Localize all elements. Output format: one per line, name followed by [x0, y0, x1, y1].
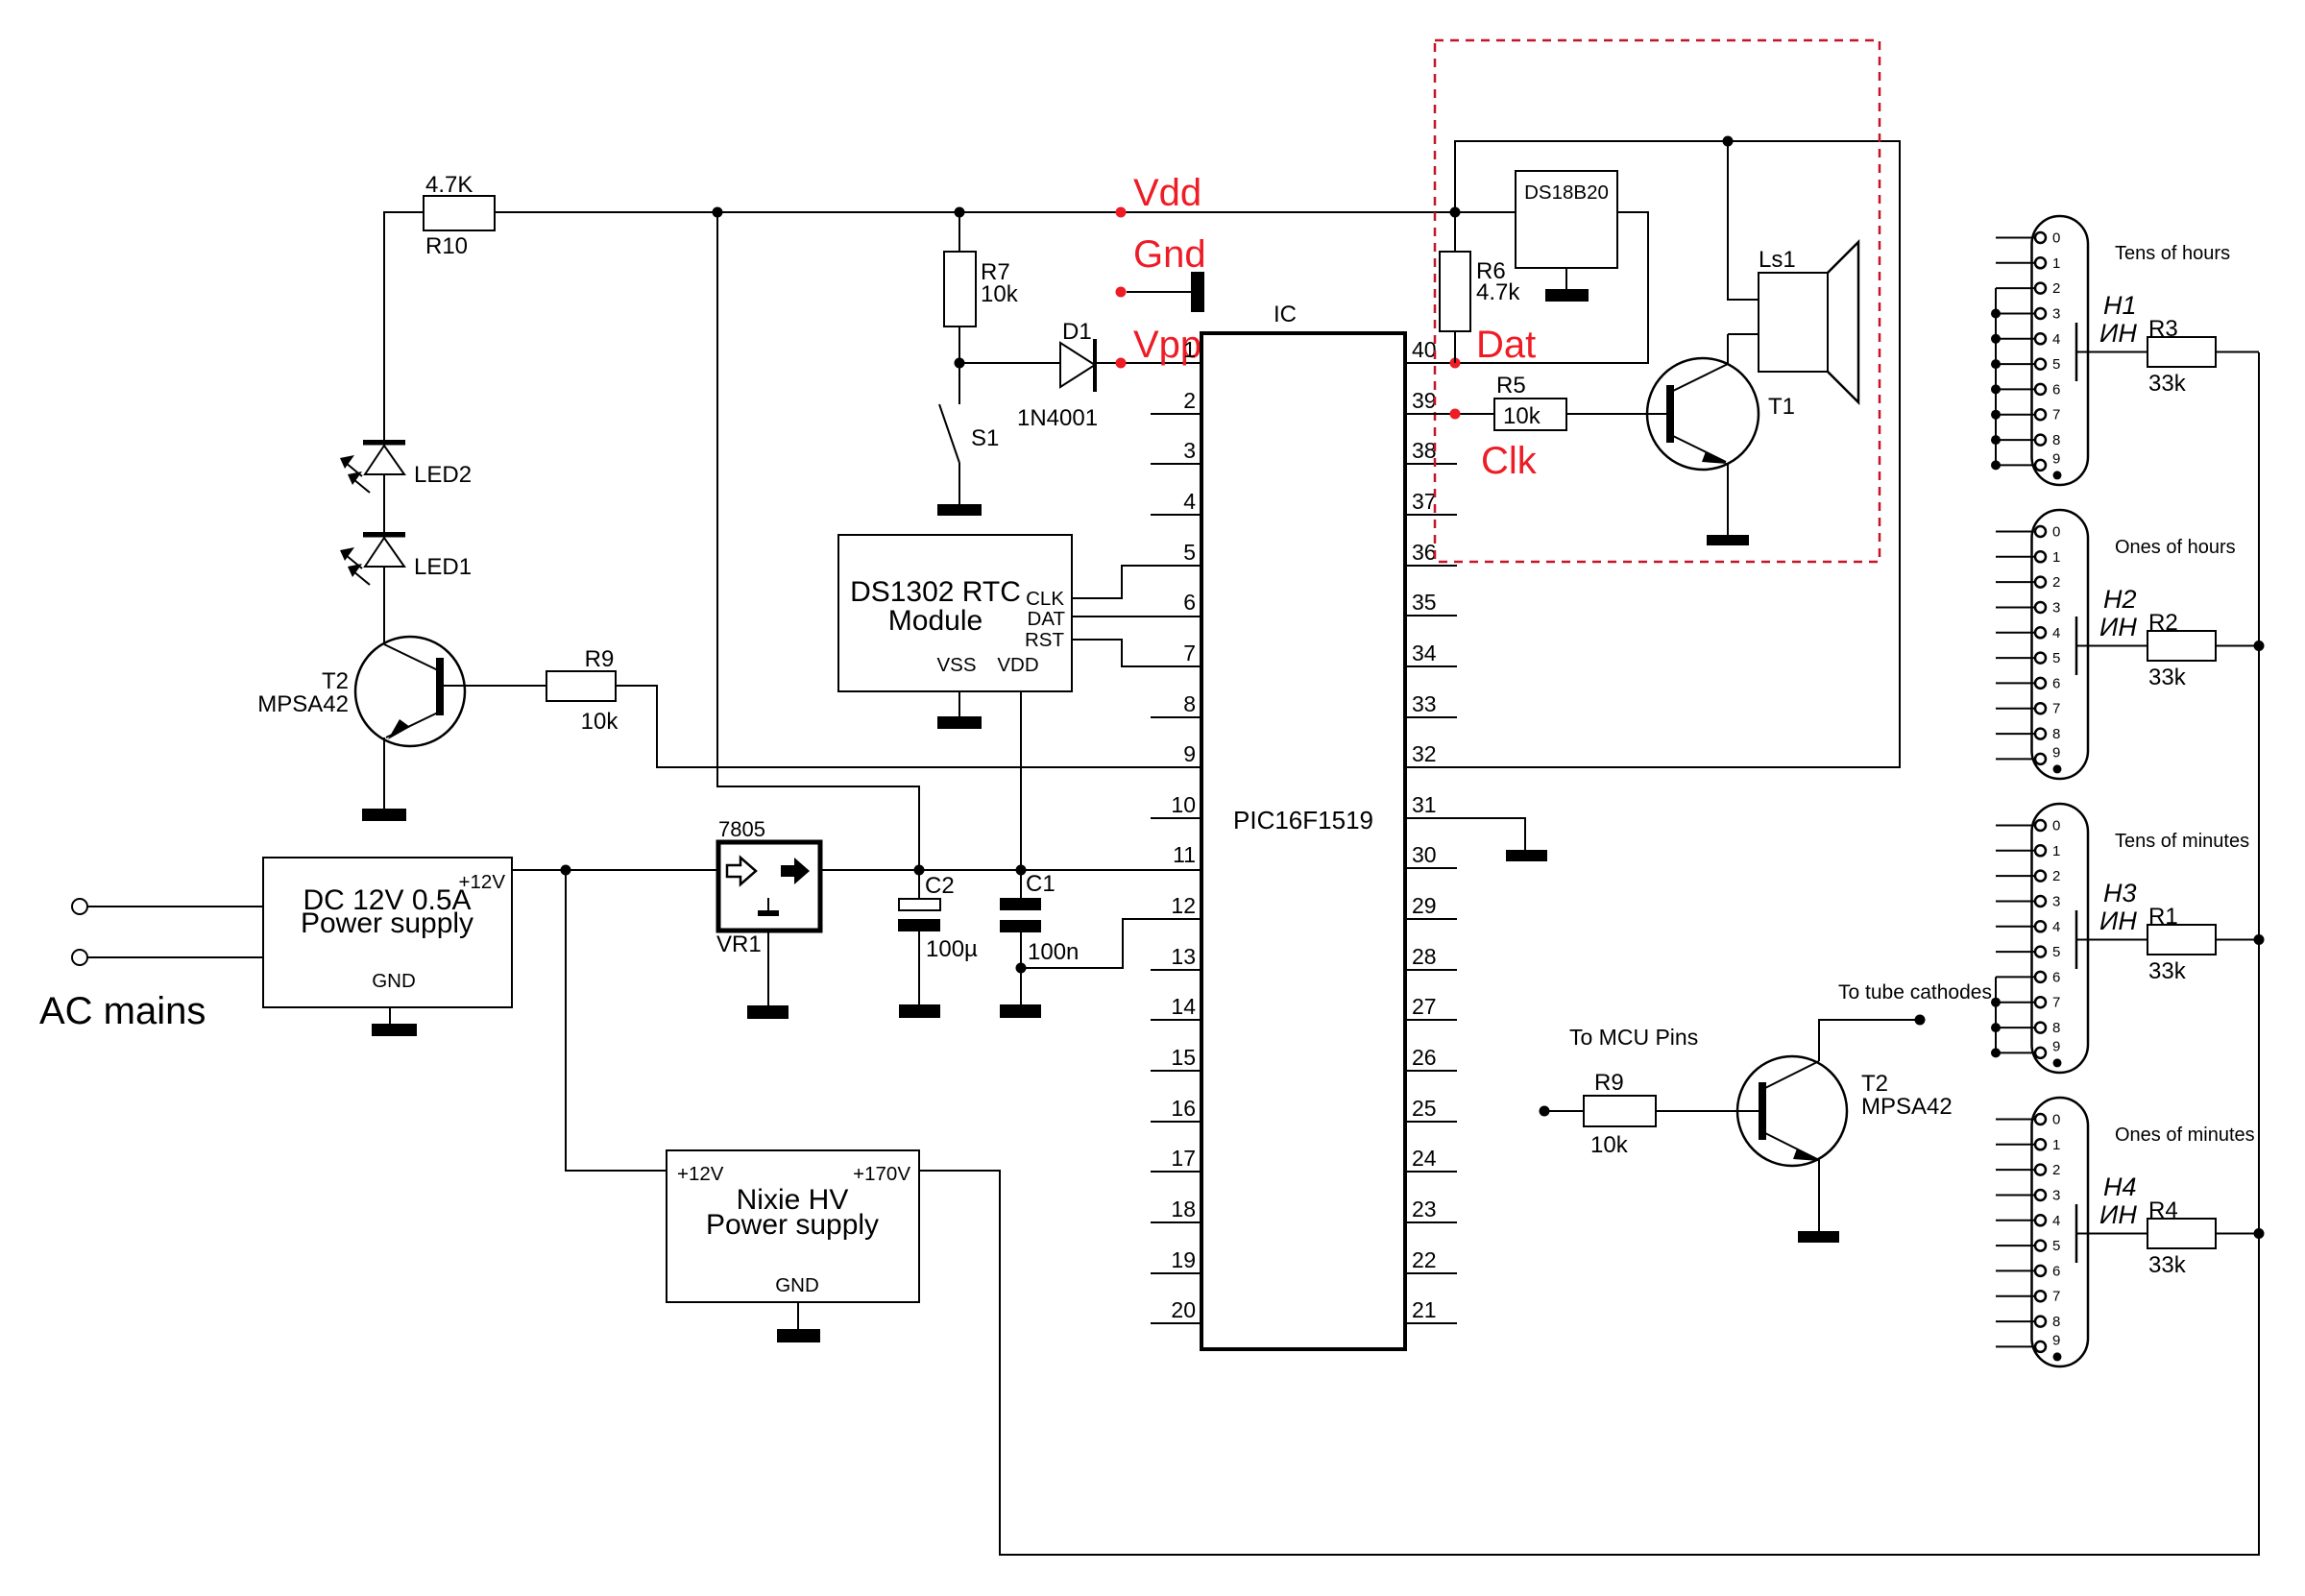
- svg-text:7805: 7805: [718, 817, 765, 841]
- dashed option box: [1435, 40, 1880, 562]
- svg-text:4: 4: [1183, 489, 1196, 514]
- wire IC pin 33 stub: [1405, 716, 1457, 718]
- wire 5V rail (7805 out to IC pin 11): [820, 869, 1201, 871]
- wire VR1 gnd stub: [767, 931, 769, 1005]
- wire C1 bottom to IC pin 12: [1021, 919, 1201, 968]
- svg-text:0: 0: [2052, 524, 2060, 541]
- wire R1 to HV bus: [2216, 939, 2259, 941]
- svg-text:9: 9: [2052, 1038, 2060, 1054]
- svg-text:8: 8: [1183, 691, 1196, 716]
- terminal to MCU: [1540, 1106, 1550, 1117]
- ground T2 driver: [1798, 1231, 1839, 1243]
- capacitor C2: [898, 865, 978, 1005]
- node junction +12V: [561, 865, 571, 876]
- svg-text:AC mains: AC mains: [39, 990, 206, 1032]
- IC U1 PIC16F1519: [1201, 302, 1405, 1349]
- svg-text:1: 1: [2052, 843, 2060, 859]
- resistor R4: [2147, 1197, 2216, 1278]
- svg-text:VSS: VSS: [936, 654, 976, 676]
- svg-text:36: 36: [1412, 540, 1437, 565]
- nixie tube H4 (Ones of minutes): [1996, 1098, 2255, 1366]
- svg-text:40: 40: [1412, 337, 1437, 362]
- svg-text:29: 29: [1412, 893, 1437, 918]
- svg-text:20: 20: [1171, 1297, 1196, 1322]
- switch S1: [939, 363, 999, 504]
- wire IC pin 8 stub: [1151, 716, 1201, 718]
- wire IC pin 2 stub: [1151, 413, 1201, 415]
- wire Vdd branch (junction to C2): [717, 212, 919, 870]
- svg-text:7: 7: [2052, 1289, 2060, 1305]
- node junction C1 bottom: [1016, 963, 1027, 974]
- wire R9 to IC pin 9: [616, 686, 1201, 767]
- resistor R9: [546, 646, 619, 735]
- wire speaker top to Vdd: [1728, 141, 1759, 300]
- svg-text:10: 10: [1171, 792, 1196, 817]
- wire pin 31 to ground: [1405, 818, 1525, 850]
- svg-text:Ls1: Ls1: [1759, 247, 1796, 273]
- svg-text:Tens of hours: Tens of hours: [2115, 243, 2230, 264]
- svg-text:VR1: VR1: [716, 931, 762, 957]
- node Clk (red): [1450, 409, 1461, 420]
- svg-text:C2: C2: [925, 873, 955, 899]
- svg-text:3: 3: [1183, 438, 1196, 463]
- svg-text:6: 6: [2052, 381, 2060, 398]
- svg-text:1: 1: [1183, 337, 1196, 362]
- svg-text:9: 9: [2052, 1332, 2060, 1348]
- ground DS18B20: [1545, 289, 1589, 302]
- svg-text:16: 16: [1171, 1096, 1196, 1121]
- svg-text:Ones of minutes: Ones of minutes: [2115, 1124, 2255, 1146]
- svg-text:5: 5: [1183, 540, 1196, 565]
- svg-text:22: 22: [1412, 1247, 1437, 1272]
- wire R3 to HV bus: [2216, 351, 2259, 353]
- svg-text:4: 4: [2052, 625, 2060, 641]
- svg-text:DS18B20: DS18B20: [1524, 181, 1609, 204]
- ground T2: [362, 809, 406, 821]
- svg-text:Clk: Clk: [1481, 440, 1538, 482]
- wire IC pin 25 stub: [1405, 1121, 1457, 1123]
- node junction HV bus H4: [2254, 1228, 2265, 1239]
- wire R4 to HV bus: [2216, 1233, 2259, 1235]
- wire +170V to HV bus: [919, 352, 2259, 1555]
- svg-text:33k: 33k: [2148, 958, 2187, 984]
- svg-text:To MCU Pins: To MCU Pins: [1569, 1025, 1698, 1050]
- svg-text:DAT: DAT: [1028, 608, 1066, 630]
- svg-text:0: 0: [2052, 818, 2060, 834]
- svg-text:100n: 100n: [1028, 939, 1079, 965]
- svg-text:Module: Module: [888, 605, 983, 637]
- wire R9 to T2 base: [1656, 1110, 1759, 1112]
- svg-text:ИН: ИН: [2099, 319, 2137, 348]
- node junction Vdd-left: [713, 207, 723, 218]
- resistor R3: [2147, 316, 2216, 397]
- wire D1 to IC pin 1: [1095, 362, 1201, 364]
- wire pin 39 Clk: [1405, 413, 1494, 415]
- wire IC pin 18 stub: [1151, 1221, 1201, 1223]
- wire IC pin 28 stub: [1405, 969, 1457, 971]
- resistor R9 (driver): [1584, 1070, 1656, 1158]
- speaker Ls1: [1759, 242, 1858, 402]
- svg-text:Gnd: Gnd: [1133, 233, 1206, 276]
- power supply DC 12V box: [263, 858, 512, 1007]
- resistor R1: [2147, 904, 2216, 984]
- svg-text:32: 32: [1412, 741, 1437, 766]
- svg-text:33k: 33k: [2148, 371, 2187, 397]
- nixie tube H1 (Tens of hours): [1996, 216, 2230, 485]
- wire pin 32 Vdd loop: [1405, 141, 1900, 767]
- wire IC pin 16 stub: [1151, 1121, 1201, 1123]
- wire pin 40 Dat to DS18B20: [1405, 212, 1648, 363]
- node Dat (red): [1450, 358, 1461, 369]
- wire IC pin 37 stub: [1405, 514, 1457, 516]
- svg-text:8: 8: [2052, 726, 2060, 742]
- svg-text:4: 4: [2052, 1213, 2060, 1229]
- svg-text:R10: R10: [425, 233, 468, 259]
- svg-text:15: 15: [1171, 1045, 1196, 1070]
- svg-text:R5: R5: [1496, 373, 1526, 399]
- svg-text:H2: H2: [2103, 585, 2137, 614]
- svg-text:6: 6: [2052, 1263, 2060, 1279]
- svg-text:5: 5: [2052, 1238, 2060, 1254]
- svg-text:S1: S1: [971, 425, 999, 451]
- wire DS18B20 gnd stub: [1565, 268, 1567, 289]
- svg-text:35: 35: [1412, 590, 1437, 615]
- svg-text:26: 26: [1412, 1045, 1437, 1070]
- capacitor C1: [1000, 865, 1079, 1005]
- ground Nixie HV: [777, 1329, 820, 1342]
- svg-text:1N4001: 1N4001: [1017, 405, 1098, 431]
- svg-text:R4: R4: [2148, 1197, 2178, 1223]
- svg-text:0: 0: [2052, 1112, 2060, 1128]
- ground DS1302 VSS: [937, 716, 982, 729]
- ground VR1: [747, 1005, 789, 1019]
- svg-text:R1: R1: [2148, 904, 2178, 930]
- svg-text:7: 7: [2052, 701, 2060, 717]
- svg-text:1: 1: [2052, 1137, 2060, 1153]
- svg-text:19: 19: [1171, 1247, 1196, 1272]
- svg-text:7: 7: [1183, 641, 1196, 665]
- svg-text:C1: C1: [1026, 871, 1055, 897]
- svg-text:GND: GND: [775, 1274, 819, 1296]
- svg-text:3: 3: [2052, 306, 2060, 323]
- terminal AC mains upper: [72, 899, 87, 914]
- svg-text:To tube cathodes: To tube cathodes: [1838, 981, 1992, 1004]
- svg-text:2: 2: [2052, 1162, 2060, 1178]
- svg-text:Power supply: Power supply: [706, 1209, 879, 1241]
- node junction R7/S1/D1: [955, 358, 965, 369]
- ground T1: [1707, 535, 1749, 545]
- svg-text:39: 39: [1412, 388, 1437, 413]
- svg-text:37: 37: [1412, 489, 1437, 514]
- svg-text:LED1: LED1: [414, 554, 472, 580]
- svg-text:10k: 10k: [1503, 403, 1541, 429]
- wire +12V rail: [512, 869, 718, 871]
- wire IC pin 34 stub: [1405, 665, 1457, 667]
- svg-text:VDD: VDD: [997, 654, 1038, 676]
- wire LED1 to T2 collector: [383, 567, 385, 644]
- wire AC lower: [87, 956, 263, 958]
- wire IC pin 35 stub: [1405, 615, 1457, 617]
- svg-text:GND: GND: [372, 970, 416, 992]
- wire CLK to pin 5: [1072, 566, 1201, 598]
- node junction speaker top: [1723, 136, 1734, 147]
- nixie tube H2 (Ones of hours): [1996, 510, 2236, 779]
- wire IC pin 30 stub: [1405, 867, 1457, 869]
- svg-text:0: 0: [2052, 230, 2060, 247]
- ground DC supply: [372, 1024, 417, 1036]
- module DS1302 RTC: [838, 535, 1072, 691]
- svg-text:100µ: 100µ: [926, 936, 978, 962]
- wire LED2-LED1: [383, 474, 385, 532]
- svg-text:Ones of hours: Ones of hours: [2115, 537, 2236, 558]
- svg-text:2: 2: [2052, 574, 2060, 591]
- svg-text:ИН: ИН: [2099, 1200, 2137, 1229]
- svg-text:5: 5: [2052, 650, 2060, 666]
- transistor T1: [1647, 358, 1795, 470]
- svg-text:2: 2: [2052, 868, 2060, 884]
- svg-text:14: 14: [1171, 994, 1196, 1019]
- svg-text:IC: IC: [1274, 302, 1297, 327]
- svg-text:3: 3: [2052, 600, 2060, 617]
- transistor T2 (MPSA42, left): [257, 637, 465, 746]
- svg-text:H4: H4: [2103, 1173, 2137, 1201]
- wire IC pin 21 stub: [1405, 1322, 1457, 1324]
- wire Nixie GND stub: [797, 1302, 799, 1329]
- wire IC pin 26 stub: [1405, 1070, 1457, 1072]
- wire +12V down to Nixie HV: [566, 870, 667, 1171]
- wire IC pin 19 stub: [1151, 1272, 1201, 1274]
- wire AC upper: [87, 906, 263, 907]
- terminal AC mains lower: [72, 950, 87, 965]
- svg-text:3: 3: [2052, 1188, 2060, 1204]
- svg-text:5: 5: [2052, 944, 2060, 960]
- svg-text:1: 1: [2052, 549, 2060, 566]
- svg-text:31: 31: [1412, 792, 1437, 817]
- svg-text:6: 6: [2052, 675, 2060, 691]
- node Gnd (red): [1116, 233, 1206, 312]
- svg-text:8: 8: [2052, 432, 2060, 448]
- LED LED1: [340, 532, 472, 585]
- wire IC pin 14 stub: [1151, 1019, 1201, 1021]
- ground C1: [1000, 1004, 1041, 1018]
- resistor R7: [944, 212, 1019, 363]
- svg-text:T1: T1: [1768, 394, 1795, 420]
- terminal to tube cathodes: [1915, 1015, 1926, 1026]
- svg-text:17: 17: [1171, 1146, 1196, 1171]
- svg-text:10k: 10k: [981, 281, 1019, 307]
- svg-text:Power supply: Power supply: [301, 907, 473, 939]
- svg-text:9: 9: [2052, 450, 2060, 467]
- svg-text:11: 11: [1173, 842, 1196, 867]
- svg-text:21: 21: [1412, 1297, 1437, 1322]
- svg-text:D1: D1: [1062, 319, 1092, 345]
- wire IC pin 20 stub: [1151, 1322, 1201, 1324]
- svg-text:RST: RST: [1025, 629, 1064, 651]
- ground C2: [899, 1004, 940, 1018]
- resistor R6: [1440, 212, 1520, 363]
- voltage regulator VR1 7805: [716, 817, 820, 957]
- resistor R10: [424, 172, 495, 259]
- wire IC pin 3 stub: [1151, 463, 1201, 465]
- wire IC pin 13 stub: [1151, 969, 1201, 971]
- svg-text:8: 8: [2052, 1314, 2060, 1330]
- wire DAT to pin 6: [1072, 616, 1201, 617]
- svg-text:3: 3: [2052, 894, 2060, 910]
- LED LED2: [340, 440, 472, 493]
- svg-text:13: 13: [1171, 944, 1196, 969]
- svg-text:18: 18: [1171, 1197, 1196, 1221]
- svg-text:T2: T2: [322, 668, 349, 694]
- svg-text:33: 33: [1412, 691, 1437, 716]
- wire IC pin 4 stub: [1151, 514, 1201, 516]
- svg-text:24: 24: [1412, 1146, 1437, 1171]
- wire H3 cathode bus: [1995, 977, 1997, 1052]
- svg-text:33k: 33k: [2148, 665, 2187, 690]
- svg-text:30: 30: [1412, 842, 1437, 867]
- wire R5 to T1 base: [1566, 413, 1666, 415]
- svg-text:6: 6: [1183, 590, 1196, 615]
- sensor DS18B20: [1516, 171, 1617, 268]
- svg-text:Tens of minutes: Tens of minutes: [2115, 831, 2249, 852]
- wire IC pin 22 stub: [1405, 1272, 1457, 1274]
- svg-text:ИН: ИН: [2099, 613, 2137, 641]
- resistor R5: [1494, 373, 1566, 430]
- svg-text:8: 8: [2052, 1020, 2060, 1036]
- wire IC pin 23 stub: [1405, 1221, 1457, 1223]
- svg-text:ИН: ИН: [2099, 907, 2137, 935]
- wire DC GND stub: [389, 1007, 391, 1024]
- node junction above R7: [955, 207, 965, 218]
- svg-text:25: 25: [1412, 1096, 1437, 1121]
- svg-text:CLK: CLK: [1026, 588, 1064, 610]
- svg-text:2: 2: [2052, 280, 2060, 297]
- wire T1 emitter to ground: [1727, 464, 1729, 535]
- wire VDD to 5V rail: [1020, 691, 1022, 870]
- wire terminal to R9: [1544, 1110, 1584, 1112]
- wire IC pin 38 stub: [1405, 463, 1457, 465]
- svg-text:+170V: +170V: [853, 1163, 910, 1185]
- svg-text:Dat: Dat: [1476, 324, 1536, 366]
- svg-text:9: 9: [2052, 744, 2060, 761]
- svg-text:PIC16F1519: PIC16F1519: [1233, 806, 1373, 834]
- wire RST to pin 7: [1072, 640, 1201, 666]
- svg-text:10k: 10k: [581, 709, 619, 735]
- svg-text:5: 5: [2052, 356, 2060, 373]
- resistor R2: [2147, 610, 2216, 690]
- transistor T2 (MPSA42, driver): [1737, 1056, 1953, 1166]
- nixie tube H3 (Tens of minutes): [1996, 804, 2249, 1073]
- wire T2 collector to tube cathodes: [1819, 1020, 1920, 1061]
- svg-text:DS1302 RTC: DS1302 RTC: [850, 576, 1021, 608]
- svg-text:12: 12: [1171, 893, 1196, 918]
- svg-text:4: 4: [2052, 331, 2060, 348]
- svg-text:R9: R9: [1594, 1070, 1624, 1096]
- svg-text:H3: H3: [2103, 879, 2137, 907]
- ground pin 31: [1506, 850, 1547, 861]
- ground S1: [937, 504, 982, 516]
- svg-text:+12V: +12V: [677, 1163, 724, 1185]
- svg-text:R9: R9: [585, 646, 615, 672]
- wire IC pin 24 stub: [1405, 1171, 1457, 1173]
- svg-text:4.7k: 4.7k: [1476, 279, 1520, 305]
- wire VSS stub: [958, 691, 960, 716]
- svg-text:2: 2: [1183, 388, 1196, 413]
- wire T2 emitter to ground: [383, 738, 385, 809]
- svg-text:7: 7: [2052, 407, 2060, 423]
- wire H1 cathode bus: [1995, 288, 1997, 465]
- svg-text:33k: 33k: [2148, 1252, 2187, 1278]
- node junction HV bus H3: [2254, 934, 2265, 945]
- wire IC pin 17 stub: [1151, 1171, 1201, 1173]
- svg-text:6: 6: [2052, 969, 2060, 985]
- wire IC pin 10 stub: [1151, 817, 1201, 819]
- node junction Vdd-right: [1450, 207, 1461, 218]
- svg-text:T2: T2: [1861, 1071, 1888, 1097]
- svg-text:27: 27: [1412, 994, 1437, 1019]
- svg-text:H1: H1: [2103, 291, 2137, 320]
- svg-text:10k: 10k: [1590, 1132, 1629, 1158]
- wire T2 base to R9: [444, 685, 546, 687]
- svg-text:38: 38: [1412, 438, 1437, 463]
- svg-text:1: 1: [2052, 255, 2060, 272]
- wire IC pin 15 stub: [1151, 1070, 1201, 1072]
- svg-text:7: 7: [2052, 995, 2060, 1011]
- wire Vdd rail top: [384, 212, 424, 440]
- node Vdd (red): [1116, 207, 1127, 218]
- svg-text:28: 28: [1412, 944, 1437, 969]
- svg-text:34: 34: [1412, 641, 1437, 665]
- svg-text:4: 4: [2052, 919, 2060, 935]
- svg-text:LED2: LED2: [414, 462, 472, 488]
- svg-text:R3: R3: [2148, 316, 2178, 342]
- wire IC pin 36 stub: [1405, 565, 1457, 567]
- wire IC pin 27 stub: [1405, 1019, 1457, 1021]
- svg-text:MPSA42: MPSA42: [1861, 1094, 1953, 1120]
- wire R2 to HV bus: [2216, 645, 2259, 647]
- diode D1 1N4001: [959, 319, 1098, 431]
- svg-text:9: 9: [1183, 741, 1196, 766]
- power supply Nixie HV box: [667, 1150, 919, 1302]
- svg-text:23: 23: [1412, 1197, 1437, 1221]
- svg-text:Vdd: Vdd: [1133, 172, 1201, 214]
- svg-text:R2: R2: [2148, 610, 2178, 636]
- wire T2 emitter to ground: [1818, 1159, 1820, 1231]
- node Vpp (red): [1116, 358, 1127, 369]
- node junction HV bus H2: [2254, 641, 2265, 651]
- svg-text:MPSA42: MPSA42: [257, 691, 349, 717]
- wire T1 collector to speaker: [1727, 334, 1729, 364]
- wire IC pin 29 stub: [1405, 918, 1457, 920]
- svg-text:4.7K: 4.7K: [425, 172, 473, 198]
